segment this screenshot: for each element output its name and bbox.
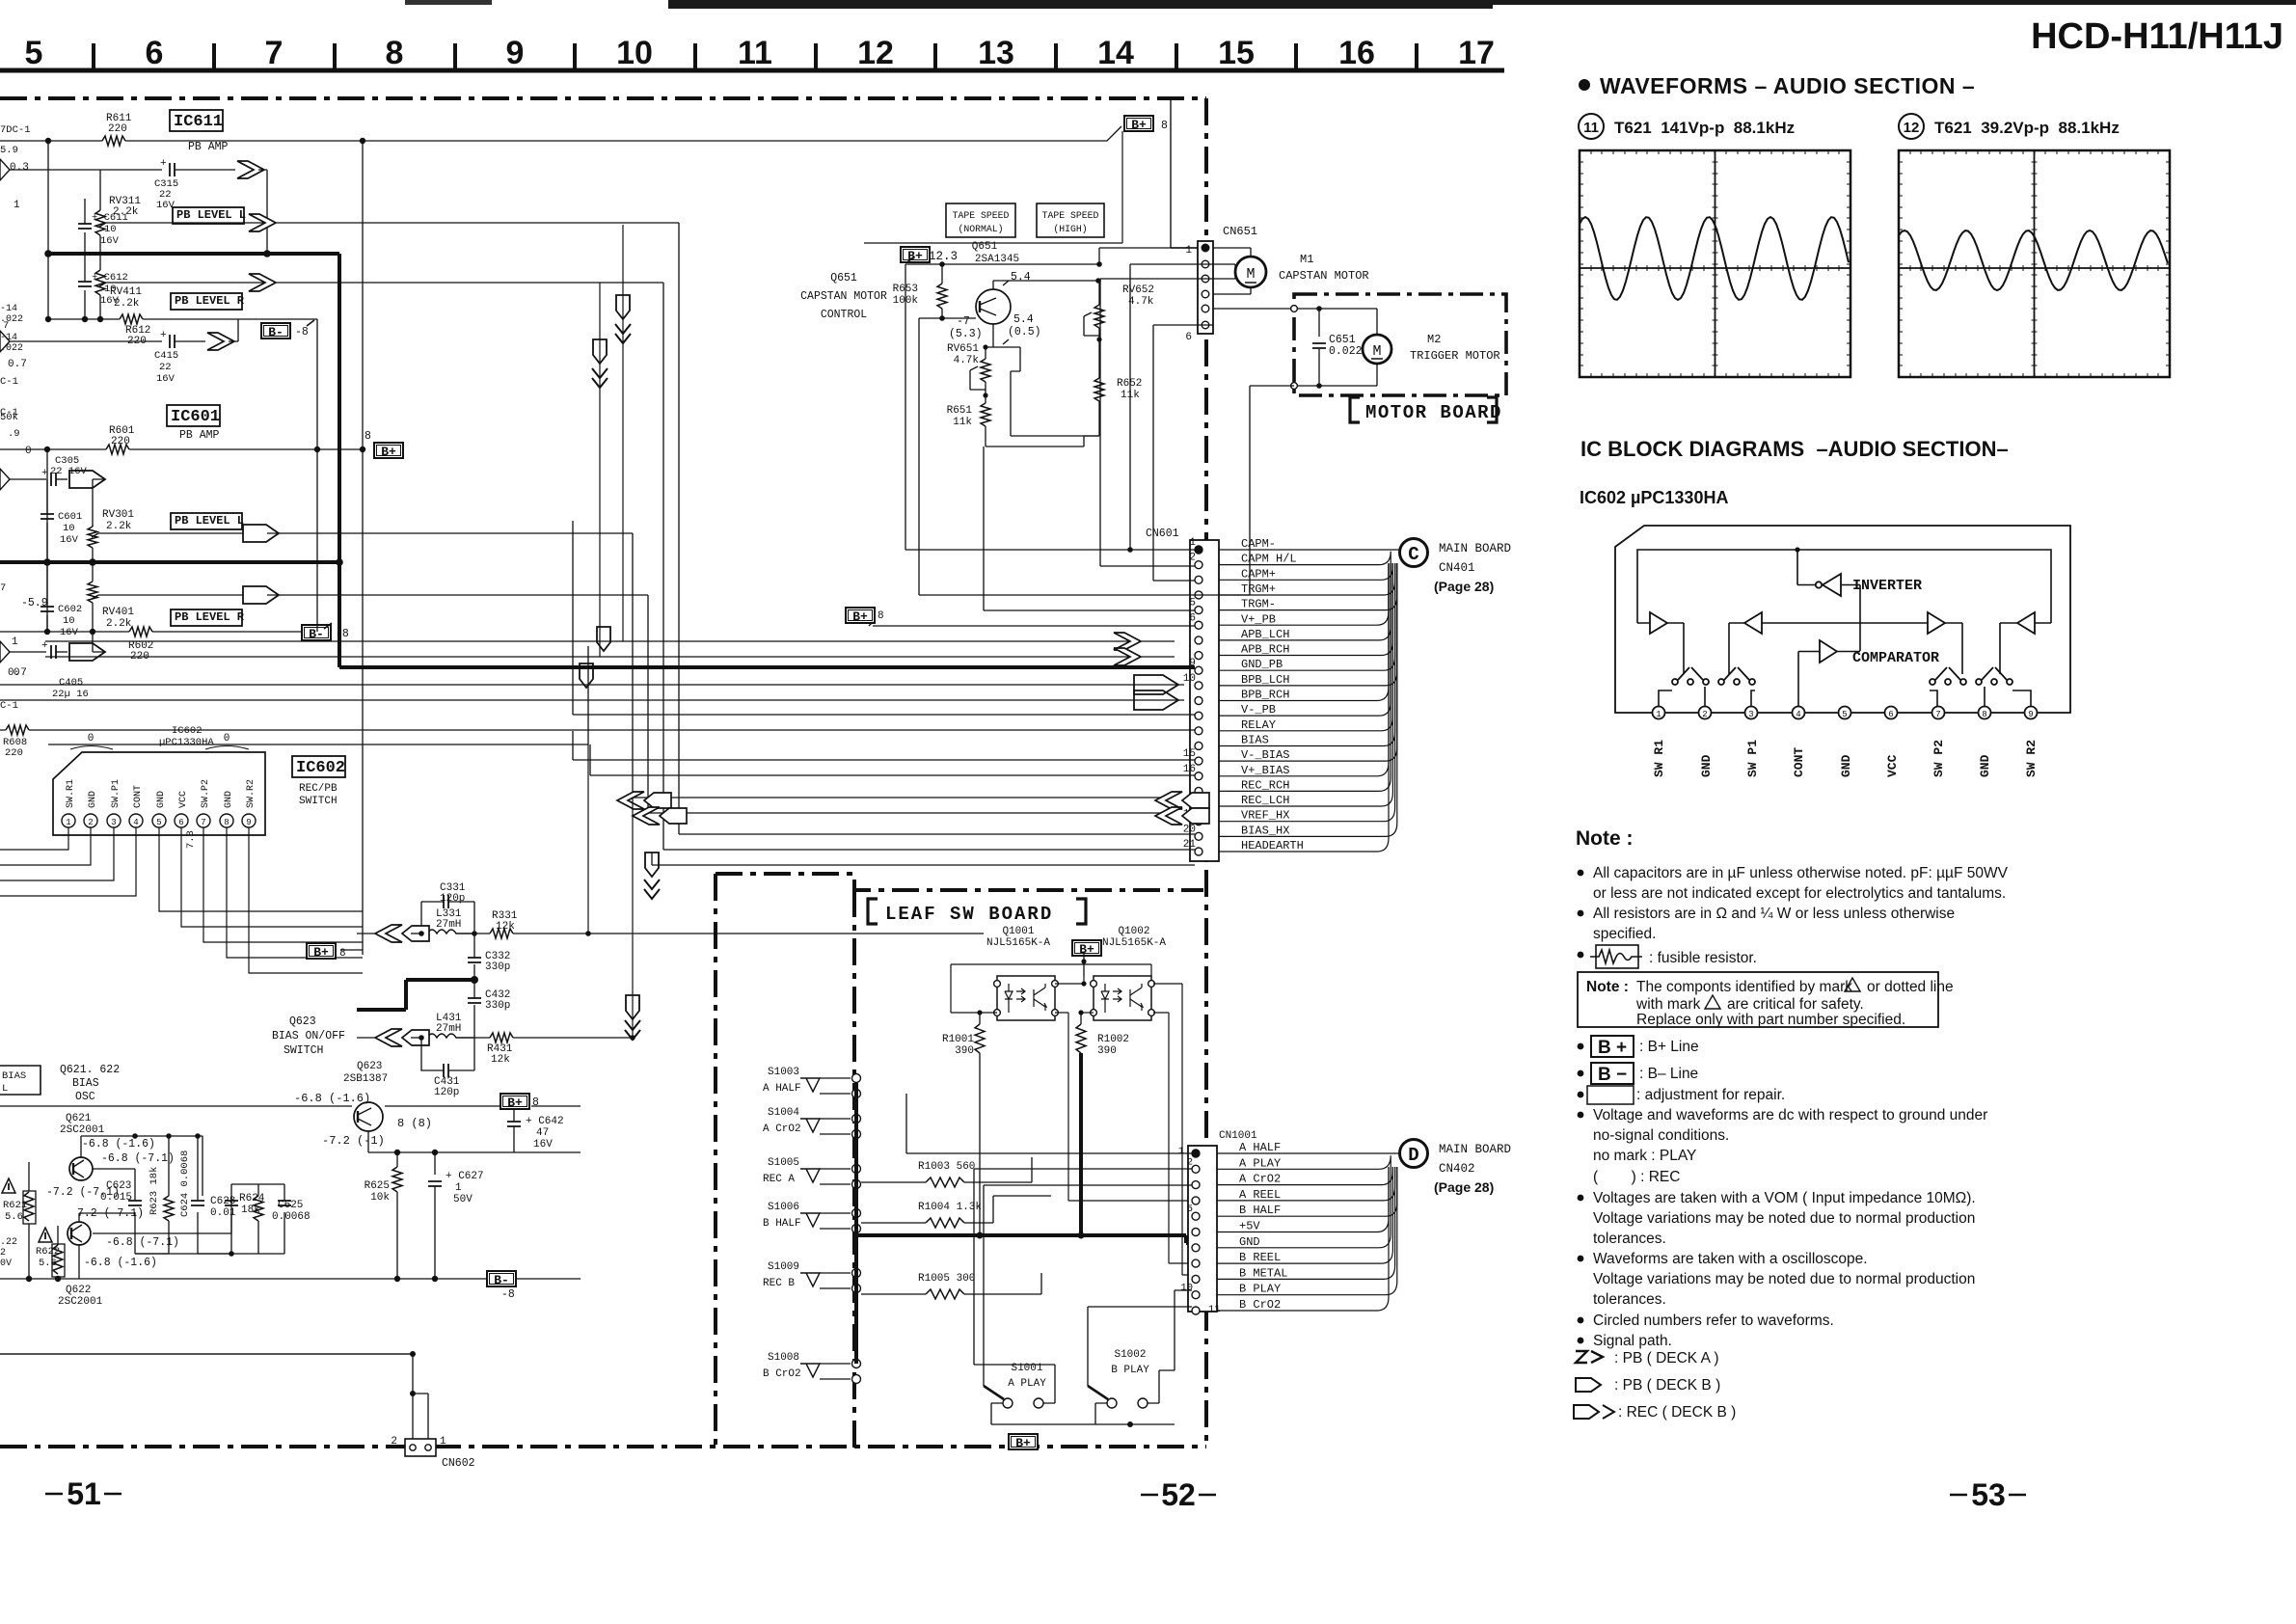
leaf sw board title xyxy=(868,899,878,924)
svg-text:5: 5 xyxy=(1842,710,1847,719)
svg-text:GND: GND xyxy=(156,791,167,808)
svg-text:REC/PB: REC/PB xyxy=(299,783,338,795)
wire CN1001 B HALF fanout xyxy=(1217,1167,1397,1216)
pin 2 CN601 CAPM H/L xyxy=(1195,561,1202,569)
svg-text:12: 12 xyxy=(857,35,894,71)
svg-text:R651: R651 xyxy=(947,405,973,417)
ic602 block outline xyxy=(1615,526,2070,713)
pin 6 CN1001 +5V xyxy=(1192,1229,1200,1236)
connector CN602 xyxy=(405,1439,436,1456)
svg-text:IC601: IC601 xyxy=(171,408,220,426)
wire Q651 base xyxy=(919,318,976,595)
svg-text:2: 2 xyxy=(88,818,93,827)
svg-text:SW.P2: SW.P2 xyxy=(201,779,211,808)
svg-text:5: 5 xyxy=(1187,1204,1193,1215)
page number 52 xyxy=(1141,1494,1216,1497)
svg-text:0.015: 0.015 xyxy=(100,1192,132,1204)
svg-text:BIAS: BIAS xyxy=(2,1070,26,1082)
pin 3 CN651 xyxy=(1202,275,1209,283)
svg-text:NJL5165K-A: NJL5165K-A xyxy=(986,937,1050,949)
svg-text:(Page 28): (Page 28) xyxy=(1434,1179,1494,1195)
svg-text:2: 2 xyxy=(1187,1156,1193,1168)
svg-text:Q651: Q651 xyxy=(830,272,857,284)
svg-text:6: 6 xyxy=(178,818,183,827)
svg-text:27mH: 27mH xyxy=(436,1023,461,1035)
svg-text:10: 10 xyxy=(616,35,653,71)
pin 20 CN601 BIAS_HX xyxy=(1195,832,1202,840)
svg-text:M1: M1 xyxy=(1300,253,1313,266)
wire PB LEVEL R line 2 xyxy=(171,609,242,626)
pin 1 CN651 xyxy=(1202,244,1209,252)
svg-text:A PLAY: A PLAY xyxy=(1239,1156,1281,1170)
svg-text:R623 18k: R623 18k xyxy=(149,1167,160,1215)
svg-text:0.01: 0.01 xyxy=(210,1207,236,1219)
wire APB_RCH bus xyxy=(45,656,1175,658)
svg-text:1: 1 xyxy=(1189,537,1196,549)
svg-text:220: 220 xyxy=(108,123,127,135)
svg-text:T621 39.2Vp-p 88.1kHz: T621 39.2Vp-p 88.1kHz xyxy=(1934,119,2120,137)
wire PB LEVEL L line xyxy=(173,207,244,224)
pin 7 CN601 APB_LCH xyxy=(1195,636,1202,644)
wire CN651 to M1 xyxy=(1213,248,1251,294)
svg-text:C415: C415 xyxy=(154,350,178,362)
pin 2 IC602 package xyxy=(84,814,97,827)
svg-text:M2: M2 xyxy=(1427,333,1441,346)
pin 6 CN651 xyxy=(1202,321,1209,329)
svg-text:CN401: CN401 xyxy=(1439,561,1475,575)
svg-text:-5.9: -5.9 xyxy=(21,597,48,609)
svg-text:specified.: specified. xyxy=(1593,926,1656,942)
wire CN601 APB_LCH fanout xyxy=(1219,563,1391,640)
label bias box xyxy=(0,1066,41,1095)
wire CN601 BPB_RCH fanout xyxy=(1219,563,1389,701)
svg-text:or dotted line: or dotted line xyxy=(1867,979,1954,995)
svg-text:REC_RCH: REC_RCH xyxy=(1241,778,1289,792)
svg-text:7.3: 7.3 xyxy=(185,830,197,849)
scan artifact bar xyxy=(668,0,1493,9)
svg-text:9: 9 xyxy=(2028,710,2033,719)
svg-text:RV652: RV652 xyxy=(1122,284,1154,296)
signal arrow into L331 xyxy=(375,925,402,942)
svg-text:CN601: CN601 xyxy=(1146,528,1179,540)
wire CN601 BPB_LCH fanout xyxy=(1219,563,1397,686)
pin 1 IC602 block xyxy=(1653,707,1665,719)
svg-text:0.7: 0.7 xyxy=(8,359,27,370)
pin 4 IC602 block xyxy=(1793,707,1805,719)
wire capstan B+ rail xyxy=(905,248,1198,550)
wire CN601 CAPM H/L fanout xyxy=(1219,552,1391,565)
tape speed normal label box xyxy=(946,203,1015,237)
svg-text:Signal path.: Signal path. xyxy=(1593,1333,1672,1349)
svg-text:TRIGGER MOTOR: TRIGGER MOTOR xyxy=(1410,349,1500,363)
svg-text:OSC: OSC xyxy=(75,1091,95,1103)
svg-text:6: 6 xyxy=(146,35,164,71)
pin 3 CN1001 A CrO2 xyxy=(1192,1181,1200,1189)
svg-text:are critical for safety.: are critical for safety. xyxy=(1727,996,1864,1013)
svg-text:B HALF: B HALF xyxy=(1239,1204,1281,1217)
label B+ leaf xyxy=(1072,940,1101,956)
wire APB_LCH bus xyxy=(45,640,1175,642)
wire CN651 to M2 loop xyxy=(1213,309,1377,386)
pin 13 CN601 RELAY xyxy=(1195,727,1202,735)
svg-text:LEAF SW BOARD: LEAF SW BOARD xyxy=(885,904,1053,925)
signal arrow REC LCH xyxy=(1155,807,1182,825)
svg-text:S1008: S1008 xyxy=(768,1352,799,1364)
svg-text:10: 10 xyxy=(63,615,75,627)
pin 7 IC602 block xyxy=(1932,707,1945,719)
svg-text:10: 10 xyxy=(63,523,75,534)
svg-text:Q623: Q623 xyxy=(357,1061,382,1072)
wire CN601 V-_BIAS fanout xyxy=(1219,563,1397,761)
svg-text:Waveforms are taken with a osc: Waveforms are taken with a oscilloscope. xyxy=(1593,1251,1868,1267)
svg-text:Voltages are taken with a VOM: Voltages are taken with a VOM ( Input im… xyxy=(1593,1190,1976,1206)
svg-text:MAIN BOARD: MAIN BOARD xyxy=(1439,1143,1511,1156)
svg-text:TAPE SPEED: TAPE SPEED xyxy=(1042,210,1099,221)
node D main board CN402 xyxy=(1400,1140,1428,1168)
op-amp IC601 B xyxy=(0,641,10,663)
svg-text:10: 10 xyxy=(1180,1283,1193,1294)
signal arrow down x622 top xyxy=(599,283,601,657)
svg-text:330p: 330p xyxy=(485,961,510,973)
page number 53 xyxy=(1950,1494,2026,1497)
signal arrow PB level R xyxy=(249,274,276,291)
motor M2 trigger xyxy=(1363,335,1391,364)
svg-text:5: 5 xyxy=(25,35,43,71)
pin 4 CN601 TRGM+ xyxy=(1195,591,1202,599)
svg-text:IC BLOCK DIAGRAMS –AUDIO SECT: IC BLOCK DIAGRAMS –AUDIO SECTION– xyxy=(1580,437,2009,461)
signal arrow PB A out L xyxy=(237,161,264,178)
pin 1 CN601 CAPM- xyxy=(1195,546,1202,554)
svg-text:C-1: C-1 xyxy=(0,700,18,712)
svg-text:16V: 16V xyxy=(60,627,79,638)
pin 17 CN601 REC_RCH xyxy=(1195,787,1202,795)
svg-text:The componts identified by mar: The componts identified by mark xyxy=(1636,979,1852,995)
svg-text:2.2k: 2.2k xyxy=(114,298,140,310)
svg-text:R652: R652 xyxy=(1117,378,1142,390)
wire BIAS_HX bus xyxy=(663,849,1195,851)
svg-text:-6.8 (-1.6): -6.8 (-1.6) xyxy=(84,1257,157,1269)
wire CN601 VREF_HX fanout xyxy=(1219,563,1395,822)
signal arrow PB level L xyxy=(249,214,276,231)
svg-text:2SB1387: 2SB1387 xyxy=(343,1073,388,1085)
svg-text:9: 9 xyxy=(246,818,251,827)
svg-text:10k: 10k xyxy=(370,1192,390,1204)
svg-text:C624 0.0068: C624 0.0068 xyxy=(179,1150,191,1217)
svg-text:7: 7 xyxy=(265,35,284,71)
svg-text:M: M xyxy=(1246,266,1255,283)
svg-text:HEADEARTH: HEADEARTH xyxy=(1241,839,1304,853)
wire CN601 RELAY fanout xyxy=(1219,563,1392,731)
svg-text:12: 12 xyxy=(1904,120,1920,136)
wire IC602 package pins down xyxy=(0,827,363,973)
svg-text:: PB ( DECK B ): : PB ( DECK B ) xyxy=(1614,1377,1720,1394)
wire bold step leaf xyxy=(357,980,474,1010)
wire Q651 collector xyxy=(993,281,1098,289)
wire VREF_HX bus xyxy=(679,833,1195,835)
wire CN1001 A HALF fanout xyxy=(1217,1152,1399,1154)
svg-text:S1004: S1004 xyxy=(768,1107,799,1119)
svg-text:-8: -8 xyxy=(336,628,349,640)
pin 8 CN1001 B REEL xyxy=(1192,1259,1200,1267)
svg-text:5.4: 5.4 xyxy=(1011,271,1031,284)
svg-text:5.6: 5.6 xyxy=(5,1211,23,1223)
svg-text:+: + xyxy=(41,640,48,652)
svg-text:1: 1 xyxy=(14,200,20,211)
pin 1 CN1001 A HALF xyxy=(1192,1150,1200,1157)
svg-text:CN402: CN402 xyxy=(1439,1162,1475,1176)
label B+ 12.3 xyxy=(901,247,930,262)
connector CN1001 xyxy=(1188,1146,1217,1312)
svg-text:11: 11 xyxy=(1208,1304,1221,1315)
svg-text:-6.8 (-7.1): -6.8 (-7.1) xyxy=(101,1152,175,1165)
tape speed high label box xyxy=(1037,203,1104,237)
svg-text:14: 14 xyxy=(1097,35,1134,71)
svg-text:GND: GND xyxy=(224,791,234,808)
svg-text:GND: GND xyxy=(1699,754,1714,777)
svg-text:B +: B + xyxy=(1598,1038,1627,1058)
svg-text:+ C627: + C627 xyxy=(446,1171,484,1182)
svg-text:RV401: RV401 xyxy=(102,607,134,618)
svg-text:B HALF: B HALF xyxy=(763,1218,801,1230)
buffer amp 3 xyxy=(1928,612,1945,634)
wire CN601 TRGM- fanout xyxy=(1219,563,1397,610)
wire BPB_RCH bus xyxy=(0,699,1184,701)
wire bold y583 xyxy=(0,560,339,564)
signal arrow down x646 top xyxy=(622,225,624,641)
wire CN601 CAPM+ fanout xyxy=(1219,563,1392,580)
svg-text:R1002: R1002 xyxy=(1097,1034,1129,1045)
wire CN601 HEADEARTH fanout xyxy=(1219,563,1389,852)
wire CN601 CAPM- fanout xyxy=(1219,549,1399,551)
svg-text:R1005 300: R1005 300 xyxy=(918,1273,975,1285)
ic602 internal switches right xyxy=(1615,526,2070,777)
svg-text:1: 1 xyxy=(12,636,18,648)
ic label IC611 xyxy=(170,110,223,131)
wire CN601 APB_RCH fanout xyxy=(1219,563,1392,656)
svg-text:B+: B+ xyxy=(507,1096,523,1110)
wire S1001 S1002 feeds xyxy=(974,1169,1192,1370)
label B+ top right xyxy=(1124,116,1153,131)
signal arrow REC RCH xyxy=(1155,792,1182,809)
svg-text:Voltage variations may be note: Voltage variations may be noted due to n… xyxy=(1593,1271,1975,1287)
svg-text:1: 1 xyxy=(455,1182,462,1194)
svg-text:REC_LCH: REC_LCH xyxy=(1241,794,1289,807)
svg-text:B −: B − xyxy=(1598,1065,1627,1085)
pin 2 CN1001 A PLAY xyxy=(1192,1165,1200,1173)
svg-text:RV411: RV411 xyxy=(110,286,142,298)
wire CN1001 A CrO2 fanout xyxy=(1217,1167,1392,1185)
svg-text:GND: GND xyxy=(1239,1235,1260,1249)
svg-text:V+_PB: V+_PB xyxy=(1241,612,1276,626)
svg-text:C602: C602 xyxy=(58,604,82,615)
wire B- vertical xyxy=(316,319,318,632)
svg-text:8: 8 xyxy=(1982,710,1986,719)
svg-text:REC B: REC B xyxy=(763,1278,795,1289)
svg-text:4.7k: 4.7k xyxy=(1128,296,1154,308)
svg-text:+: + xyxy=(160,158,167,170)
signal arrow PB A out R xyxy=(207,333,234,350)
pin 4 CN1001 A REEL xyxy=(1192,1197,1200,1204)
svg-text:C-1: C-1 xyxy=(0,376,18,388)
wire M2 return to CN601 xyxy=(1195,386,1294,595)
wire Q623 emitter xyxy=(368,1131,581,1152)
wire CN1001 pin1 feed xyxy=(906,1094,1192,1153)
svg-text:: B– Line: : B– Line xyxy=(1639,1066,1698,1082)
svg-text:CN602: CN602 xyxy=(442,1457,475,1470)
pin 16 CN601 V+_BIAS xyxy=(1195,772,1202,780)
svg-text:BIAS: BIAS xyxy=(72,1077,99,1090)
svg-text:: REC ( DECK B ): : REC ( DECK B ) xyxy=(1618,1404,1736,1421)
wire CN651 pin1 riser xyxy=(1171,99,1198,248)
svg-text:tolerances.: tolerances. xyxy=(1593,1231,1666,1247)
wire V+_BIAS bus xyxy=(590,744,1195,775)
svg-text:5.4: 5.4 xyxy=(1013,313,1034,326)
svg-text:2SC2001: 2SC2001 xyxy=(60,1124,105,1136)
svg-text:8: 8 xyxy=(1161,120,1168,132)
wire CN601 V+_BIAS fanout xyxy=(1219,563,1389,776)
svg-text:B CrO2: B CrO2 xyxy=(763,1368,801,1380)
svg-text:REC A: REC A xyxy=(763,1174,795,1185)
svg-text:SWITCH: SWITCH xyxy=(284,1044,323,1057)
svg-text:: fusible resistor.: : fusible resistor. xyxy=(1649,950,1757,966)
svg-text:0V: 0V xyxy=(0,1259,12,1269)
svg-text:SW R1: SW R1 xyxy=(1652,740,1666,777)
pin 8 IC602 block xyxy=(1979,707,1991,719)
page number 51 xyxy=(45,1493,122,1496)
pin 9 CN601 GND_PB xyxy=(1195,666,1202,674)
label B+ bottom leaf xyxy=(1009,1434,1038,1449)
signal arrow down x626 xyxy=(597,627,610,651)
svg-text:390: 390 xyxy=(955,1045,974,1057)
svg-text:(5.3): (5.3) xyxy=(949,328,983,340)
svg-text:CONT: CONT xyxy=(1792,747,1806,777)
wire CN601 REC_LCH fanout xyxy=(1219,563,1392,806)
pin 9 IC602 block xyxy=(2025,707,2038,719)
transistor Q651 xyxy=(976,289,1011,324)
svg-text:µPC1330HA: µPC1330HA xyxy=(159,737,214,748)
waveform 11 label xyxy=(1579,114,1604,139)
svg-text:RV301: RV301 xyxy=(102,509,134,521)
pin 15 CN601 V-_BIAS xyxy=(1195,757,1202,765)
svg-text:R653: R653 xyxy=(893,284,918,295)
svg-text:D: D xyxy=(1408,1145,1418,1166)
wire CN601 TRGM+ fanout xyxy=(1219,563,1395,595)
svg-text:7: 7 xyxy=(3,320,9,332)
svg-text:Note :: Note : xyxy=(1586,979,1629,995)
inverter triangle xyxy=(1823,574,1841,596)
svg-text:Replace only with part number: Replace only with part number specified. xyxy=(1636,1012,1905,1028)
wire leaf bold gnd bus xyxy=(1079,1053,1083,1235)
svg-text:T621 141Vp-p 88.1kHz: T621 141Vp-p 88.1kHz xyxy=(1614,119,1795,137)
svg-text:R1003 560: R1003 560 xyxy=(918,1161,975,1173)
svg-text:8: 8 xyxy=(365,430,371,443)
svg-text:5.9: 5.9 xyxy=(0,145,18,156)
svg-text:All resistors are in Ω and ¼ W: All resistors are in Ω and ¼ W or less u… xyxy=(1593,906,1955,922)
pin 6 CN601 V+_PB xyxy=(1195,621,1202,629)
svg-text:5: 5 xyxy=(156,818,161,827)
svg-text:RELAY: RELAY xyxy=(1241,718,1276,732)
leaf sw board border dash-dot xyxy=(716,874,1203,890)
label B+ ic602 xyxy=(307,943,336,959)
svg-text:6: 6 xyxy=(1888,710,1893,719)
connector CN601 xyxy=(1190,540,1219,861)
label B+ bias right xyxy=(500,1094,529,1109)
svg-text:PB LEVEL R: PB LEVEL R xyxy=(175,610,245,624)
svg-text:WAVEFORMS – AUDIO SECTION –: WAVEFORMS – AUDIO SECTION – xyxy=(1600,73,1975,98)
svg-text:1: 1 xyxy=(440,1436,446,1448)
svg-text:15: 15 xyxy=(1218,35,1255,71)
buffer amp 1 xyxy=(1650,612,1667,634)
svg-text:.9: .9 xyxy=(8,428,20,440)
svg-text:A PLAY: A PLAY xyxy=(1008,1378,1046,1390)
svg-text:-7: -7 xyxy=(957,315,970,328)
label B- mid xyxy=(261,323,290,338)
svg-text:A REEL: A REEL xyxy=(1239,1188,1281,1202)
svg-text:Voltage and waveforms are dc w: Voltage and waveforms are dc with respec… xyxy=(1593,1107,1987,1123)
svg-text:50k: 50k xyxy=(0,412,18,423)
wire IC601 B+ rail xyxy=(0,448,363,450)
svg-text:16V: 16V xyxy=(156,373,176,385)
svg-text:SW P2: SW P2 xyxy=(1931,740,1946,777)
wire switch bottom bus xyxy=(991,1423,1175,1425)
svg-text:2.2k: 2.2k xyxy=(106,618,132,630)
svg-text:120p: 120p xyxy=(434,1087,459,1098)
label B+ mid xyxy=(374,443,403,458)
svg-text:+ C642: + C642 xyxy=(526,1116,564,1127)
svg-text:-6.8 (-1.6): -6.8 (-1.6) xyxy=(82,1138,155,1150)
svg-text:16: 16 xyxy=(1183,764,1196,775)
svg-text:B+: B+ xyxy=(1015,1436,1031,1450)
pin 12 CN601 V-_PB xyxy=(1195,712,1202,719)
svg-text:TRGM+: TRGM+ xyxy=(1241,582,1276,596)
svg-text:13: 13 xyxy=(978,35,1014,71)
svg-text:+: + xyxy=(160,330,167,341)
svg-text:11: 11 xyxy=(1583,120,1599,136)
wire CN601 GND_PB fanout xyxy=(1219,563,1395,670)
svg-text:11: 11 xyxy=(738,35,772,71)
svg-text:R622: R622 xyxy=(36,1246,60,1258)
svg-text:B CrO2: B CrO2 xyxy=(1239,1298,1281,1312)
svg-text:330p: 330p xyxy=(485,1000,510,1012)
svg-text:B-: B- xyxy=(309,627,324,641)
comparator triangle xyxy=(1820,640,1837,663)
op-amp IC611 A xyxy=(0,159,10,180)
pin 8 IC602 package xyxy=(220,814,233,827)
optocoupler Q1001 xyxy=(997,976,1055,1020)
svg-text:R1001: R1001 xyxy=(942,1034,974,1045)
svg-text:B REEL: B REEL xyxy=(1239,1251,1281,1264)
ic label IC601 xyxy=(167,405,220,426)
svg-text:CONTROL: CONTROL xyxy=(821,309,867,321)
wire CN602 riser xyxy=(413,1354,428,1439)
svg-text:BIAS_HX: BIAS_HX xyxy=(1241,824,1289,837)
wire CN601 V-_PB fanout xyxy=(1219,563,1391,716)
pin 5 IC602 block xyxy=(1839,707,1851,719)
safety mark 2 xyxy=(39,1228,52,1242)
pin 2 CN651 xyxy=(1202,260,1209,268)
wire CN1001 A PLAY fanout xyxy=(1217,1155,1391,1169)
svg-text:B METAL: B METAL xyxy=(1239,1266,1287,1280)
wire CN1001 B REEL fanout xyxy=(1217,1167,1392,1263)
wire capstan to CN601 pin5 xyxy=(984,447,1195,610)
pin 7 IC602 package xyxy=(197,814,210,827)
signal arrow PB B out R xyxy=(69,643,105,661)
pin 9 IC602 package xyxy=(242,814,256,827)
svg-text:All capacitors are in µF unles: All capacitors are in µF unless otherwis… xyxy=(1593,865,2009,881)
wire PB LEVEL R line xyxy=(171,293,242,310)
svg-text:IC602 µPC1330HA: IC602 µPC1330HA xyxy=(1580,488,1728,507)
svg-text:BIAS ON/OFF: BIAS ON/OFF xyxy=(272,1030,345,1042)
